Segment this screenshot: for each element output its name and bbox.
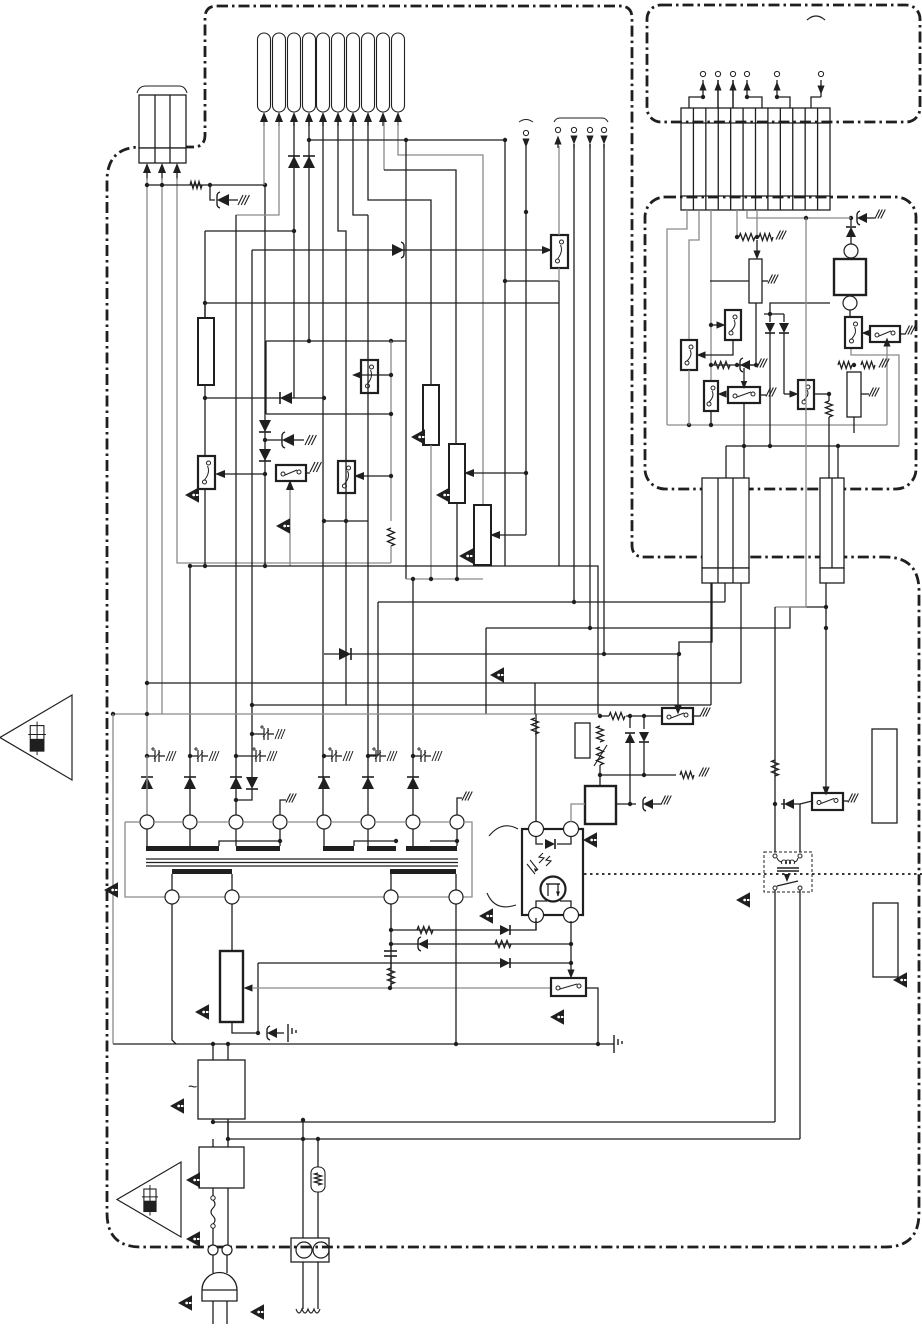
secondary bus y=579 xyxy=(406,578,483,580)
pill6 wire xyxy=(338,122,346,705)
T601 sec pin2 down xyxy=(231,904,233,951)
resistor chain x=391 xyxy=(390,341,392,521)
pill10 wire xyxy=(398,122,483,505)
wire CN601-3 long xyxy=(177,178,391,563)
secondary bus y=628 xyxy=(486,607,826,628)
into R607 xyxy=(490,531,500,539)
chassis ground xyxy=(905,326,910,335)
T601 sec pin4 down xyxy=(455,904,457,1044)
into Q615 xyxy=(567,970,574,979)
rail x=147 tail xyxy=(146,756,148,815)
pill7 wire xyxy=(353,122,368,215)
Q609 drive xyxy=(743,368,745,387)
rail x=368 xyxy=(367,215,369,815)
board pin at x=703 xyxy=(702,80,704,97)
pill2 wire xyxy=(236,122,279,215)
resistor R606 (tall rect) xyxy=(449,444,465,503)
secondary bus y=654 xyxy=(324,653,679,655)
ground bus y=1044 xyxy=(113,1043,610,1045)
Q615 right xyxy=(586,988,598,1044)
Q610 base xyxy=(784,393,794,395)
junction xyxy=(316,1137,320,1141)
rectifier diode on rail x=147 xyxy=(141,777,153,789)
pair riser xyxy=(770,303,830,314)
pin arrow CN601-3 xyxy=(173,163,181,173)
warning triangle xyxy=(583,832,597,847)
junction xyxy=(569,942,573,946)
x=205 upper xyxy=(204,231,206,318)
flow arrow xyxy=(542,246,552,254)
N wire to plug xyxy=(227,1188,229,1245)
regulator resistor R604 (tall rect) xyxy=(198,318,214,385)
junction xyxy=(389,373,393,377)
bus x=505 down xyxy=(504,140,506,566)
branch Q602 xyxy=(363,475,391,477)
warning triangle on frame xyxy=(104,882,118,897)
IC602 right xyxy=(616,803,636,805)
junction xyxy=(454,1042,458,1046)
rail x=252 xyxy=(251,250,253,777)
board pin at x=718 xyxy=(717,80,719,108)
junction xyxy=(836,444,840,448)
PC601 inner pins xyxy=(536,901,547,908)
resistor R615 xyxy=(826,401,833,417)
junction xyxy=(145,712,149,716)
warning triangle xyxy=(185,487,199,502)
cap+gnd on rail x=252 (upper) xyxy=(260,726,264,728)
into Q607 xyxy=(697,351,706,358)
R616 bottom xyxy=(853,417,855,433)
junction xyxy=(263,438,267,442)
T601 sec pin3 down xyxy=(390,904,392,988)
junction xyxy=(628,802,632,806)
AC plug xyxy=(212,1255,214,1273)
diode D606 xyxy=(303,156,315,168)
connector CN601 (3-pin, top-left) xyxy=(139,95,186,148)
earth ground xyxy=(287,1024,289,1042)
diode D608 xyxy=(280,392,292,404)
into Q611 xyxy=(862,329,871,336)
junction xyxy=(301,1118,305,1122)
bus x=266 xyxy=(265,341,267,414)
pin arrow CN601-2 xyxy=(158,163,166,173)
bus y=565 (long) xyxy=(190,566,598,714)
R604 bottom xyxy=(204,385,206,398)
warning triangle xyxy=(186,1172,200,1187)
pin group P2-P5 xyxy=(554,118,608,122)
junction xyxy=(642,773,646,777)
chassis ground xyxy=(757,359,762,368)
diode pair on y=716/775 xyxy=(629,716,631,728)
transformer T601 xyxy=(140,815,154,829)
pill1 chain tail xyxy=(264,474,266,566)
junction xyxy=(572,600,576,604)
drop x=535 xyxy=(534,683,536,714)
bus y=521 xyxy=(324,520,368,522)
middle-right sub board outline (dash-dot) xyxy=(645,197,916,489)
chassis ground xyxy=(286,794,291,803)
diode D605 xyxy=(288,156,300,168)
Q607 base wire xyxy=(701,340,733,355)
rectifier diode on rail x=190 xyxy=(184,777,196,789)
bus y=775 xyxy=(600,774,676,776)
junction xyxy=(301,1137,305,1141)
T601 winding bars bottom xyxy=(172,869,232,874)
warning triangle xyxy=(170,1098,184,1113)
R623 bottom xyxy=(232,1022,258,1033)
junction xyxy=(256,1031,260,1035)
pill8 wire xyxy=(368,122,431,385)
chassis ground xyxy=(879,359,884,368)
regulator IC602 (thick box) xyxy=(585,786,616,824)
RL601 output wires xyxy=(774,890,776,1122)
Q605 drive xyxy=(289,485,291,566)
arc mark top-right board xyxy=(807,16,825,20)
junction xyxy=(524,210,528,214)
warning triangle xyxy=(195,1004,209,1019)
grey bus y=425 xyxy=(667,424,887,426)
top-right signal board outline (dash-dot) xyxy=(647,5,920,122)
junction xyxy=(455,577,459,581)
block col feed3 xyxy=(710,583,712,705)
pin arrow CN601-1 xyxy=(143,163,151,173)
IC602 left to opto xyxy=(571,804,585,822)
into R606 xyxy=(464,469,474,477)
pin 590 wire xyxy=(589,144,591,628)
pill9 wire xyxy=(383,122,385,170)
junction xyxy=(687,423,691,427)
junction xyxy=(735,235,739,239)
filter block LF602 xyxy=(199,1147,244,1188)
bus x=486 down xyxy=(485,628,487,714)
grey stub col7 xyxy=(756,210,758,237)
chassis ground xyxy=(310,462,315,472)
wire CN601-1 rail xyxy=(146,178,148,815)
x=630 tail xyxy=(629,775,631,804)
relay feed vertical xyxy=(774,607,776,852)
transistor Q615 xyxy=(551,978,586,996)
resistor R609 (rect) xyxy=(575,723,590,758)
block col feed xyxy=(724,583,726,602)
R613 left wire xyxy=(710,280,749,282)
zener D620 xyxy=(418,939,428,949)
cap+gnd on rail x=368 xyxy=(372,748,376,750)
junction xyxy=(524,471,528,475)
junction xyxy=(389,474,393,478)
junction xyxy=(709,423,713,427)
transistor Q610 xyxy=(798,380,814,409)
junction xyxy=(411,577,415,581)
junction xyxy=(411,754,415,758)
bus B y=446 xyxy=(726,445,899,447)
junction xyxy=(503,138,507,142)
grey col3 xyxy=(710,210,712,381)
junction xyxy=(588,626,592,630)
line B left xyxy=(725,446,727,478)
junction xyxy=(852,363,856,367)
diode D621 xyxy=(500,958,510,968)
secondary bus y=705 xyxy=(252,704,711,706)
transistor Q601 xyxy=(551,235,568,268)
junction xyxy=(569,961,573,965)
into Q610 xyxy=(790,390,799,397)
junction xyxy=(160,183,164,187)
transistor Q612 xyxy=(870,326,900,342)
resistor R621 xyxy=(680,772,694,779)
junction xyxy=(735,363,739,367)
pair top bus xyxy=(764,313,784,315)
transistor Q611 xyxy=(845,317,862,348)
junction xyxy=(234,754,238,758)
junction xyxy=(322,754,326,758)
junction xyxy=(208,183,212,187)
warning triangle xyxy=(436,487,450,502)
junction xyxy=(322,519,326,523)
warning triangle xyxy=(276,518,290,533)
junction xyxy=(389,928,393,932)
junction xyxy=(250,703,254,707)
rectifier diode on rail x=236 xyxy=(230,777,242,789)
PC601 phototransistor xyxy=(541,877,566,902)
junction xyxy=(742,444,746,448)
bus y=140 xyxy=(309,139,506,141)
T601 ground stub pin8 xyxy=(457,798,462,815)
junction xyxy=(598,773,602,777)
R606 bottom xyxy=(456,503,458,579)
zener D603 xyxy=(282,434,294,446)
grey col2 xyxy=(689,210,699,340)
chassis ground xyxy=(305,435,310,445)
resistor R613 (rect) xyxy=(749,259,762,303)
warning triangle xyxy=(186,1231,200,1246)
degauss feed left xyxy=(302,1120,304,1238)
D617 to Q613 xyxy=(794,804,800,852)
mains bus N xyxy=(228,1138,800,1140)
secondary bus y=602 xyxy=(378,601,725,603)
chassis ground xyxy=(766,388,771,397)
junction xyxy=(203,301,207,305)
capacitor C601 xyxy=(384,950,397,952)
into Q603 xyxy=(352,371,362,379)
junction xyxy=(773,802,777,806)
posistor top xyxy=(317,1139,319,1167)
Q607 bottom xyxy=(688,370,690,425)
chassis ground xyxy=(875,210,880,219)
block2 col2 feed xyxy=(837,446,839,478)
pill1 wire xyxy=(263,122,265,185)
R604 top xyxy=(204,303,206,318)
resistor R612 xyxy=(759,234,773,241)
resistor R623 (big rect) xyxy=(220,951,243,1022)
LF601 top pins xyxy=(212,1044,214,1060)
zener D616 xyxy=(643,799,653,809)
x=258 drop xyxy=(257,963,259,1033)
resistor R605 (tall rect) xyxy=(423,385,439,445)
feedback grey xyxy=(252,987,551,989)
cap+gnd on rail x=413 xyxy=(417,748,421,750)
resistor R618 xyxy=(861,362,875,369)
chassis ground xyxy=(661,796,666,805)
grey col1 xyxy=(667,210,687,425)
relay RL601 (dashed box) xyxy=(764,852,812,892)
junction xyxy=(755,235,759,239)
chassis ground xyxy=(848,794,853,803)
cap+gnd on rail x=236 xyxy=(252,748,256,750)
junction xyxy=(824,626,828,630)
T601 ground stub pin4 xyxy=(280,800,286,815)
block col feed2 xyxy=(740,583,742,683)
chassis ground xyxy=(462,792,467,801)
chassis ground xyxy=(699,768,704,777)
R605 bottom xyxy=(430,445,432,579)
rail x=413 xyxy=(412,579,414,815)
transformer primary jacket (grey) xyxy=(125,821,140,823)
board pin at x=733 xyxy=(732,80,734,108)
junction xyxy=(677,652,681,656)
junction xyxy=(596,1042,600,1046)
resistor R619 xyxy=(609,713,625,720)
T601 core xyxy=(146,858,458,860)
Q601 collector xyxy=(558,146,560,235)
bus y=281 xyxy=(505,280,559,282)
into Q614 xyxy=(674,706,681,715)
junction xyxy=(307,138,311,142)
R606 base wire xyxy=(473,472,526,474)
transistor Q602 xyxy=(338,461,355,493)
bus y=231 xyxy=(205,230,294,232)
shield arc left upper xyxy=(489,826,518,836)
connector CN603 (3-cell block) xyxy=(702,478,749,568)
junction xyxy=(849,216,853,220)
rectifier diode on rail x=252 xyxy=(246,777,258,789)
Q609 bottom xyxy=(743,403,745,446)
pin 574 wire xyxy=(573,144,575,602)
Q601 emitter xyxy=(558,268,560,281)
resistor R624 xyxy=(417,927,433,934)
transistor Q607 xyxy=(681,340,697,370)
pill9 jog xyxy=(384,170,456,444)
resistor R601 xyxy=(190,182,202,189)
opto pin4 down xyxy=(570,921,572,972)
junction xyxy=(628,714,632,718)
warning triangle xyxy=(550,1009,564,1024)
transistor Q603 (upper) xyxy=(361,360,378,393)
into Q606 xyxy=(717,321,726,328)
junction xyxy=(226,1042,230,1046)
junction xyxy=(389,339,393,343)
pin 604 wire xyxy=(603,144,605,654)
resistor R603 xyxy=(388,528,395,546)
zener D613 xyxy=(740,360,750,370)
pin P1 x=526 xyxy=(523,130,528,135)
junction xyxy=(709,363,713,367)
grey stub col5 xyxy=(736,210,738,237)
bus y=303 xyxy=(205,302,559,304)
junction xyxy=(263,564,267,568)
cap+gnd on rail x=147 xyxy=(151,748,155,750)
diode D619 xyxy=(500,925,510,935)
junction xyxy=(598,714,602,718)
diode D602 xyxy=(259,420,271,432)
bus y=963 xyxy=(258,962,571,964)
posistor bottom xyxy=(317,1192,319,1238)
R619 link xyxy=(626,715,662,717)
interlock pins on border xyxy=(208,1245,218,1255)
warning triangle xyxy=(490,667,504,682)
sensor top bus xyxy=(747,210,851,218)
junction xyxy=(322,396,326,400)
junction xyxy=(211,1120,215,1124)
R613 bottom tail xyxy=(755,303,757,365)
board pin at x=747 xyxy=(746,80,748,97)
resistor R620 xyxy=(597,726,604,742)
transistor Q604 xyxy=(198,456,215,489)
caution triangle (fuse, lower) xyxy=(117,1162,181,1237)
junction xyxy=(145,681,149,685)
R607 base wire xyxy=(499,534,526,536)
Q604 base wire xyxy=(224,473,265,475)
connector CN604 block xyxy=(820,478,844,568)
chassis ground xyxy=(776,231,781,240)
pill4 wire xyxy=(308,122,310,341)
wire CN601-2 xyxy=(161,178,163,714)
T601 winding taps xyxy=(219,841,280,846)
sensor U601 (thick box) xyxy=(834,259,866,295)
junction xyxy=(111,712,115,716)
warning triangle xyxy=(411,429,425,444)
zener row xyxy=(711,364,756,366)
bus into R619 xyxy=(598,715,609,717)
diode D615 xyxy=(846,227,856,237)
zener D618 xyxy=(267,1028,277,1038)
junction xyxy=(827,392,831,396)
into Q602 xyxy=(354,472,364,480)
diode D609 xyxy=(339,648,351,660)
posistor TH601 xyxy=(311,1167,325,1192)
IC601 top pin jogs xyxy=(689,97,703,108)
junction xyxy=(211,1042,215,1046)
resistor R616 (rect) xyxy=(847,372,861,417)
degauss connector CN605 xyxy=(291,1238,329,1262)
line filter block LF601 xyxy=(198,1060,245,1119)
relay feed upper (grey) xyxy=(775,218,806,607)
bus y=944 xyxy=(391,943,571,945)
into Q608 xyxy=(718,390,727,397)
secondary bus y=683 xyxy=(147,682,741,684)
frame drop x=113 lower xyxy=(112,897,114,1044)
junction xyxy=(429,577,433,581)
zener branch xyxy=(210,185,215,200)
T601 sec pin1 down xyxy=(172,904,176,1044)
D617 link xyxy=(781,803,784,805)
junction xyxy=(388,986,392,990)
junction xyxy=(344,519,348,523)
chassis ground xyxy=(700,708,705,717)
junction xyxy=(389,942,393,946)
branch T4 xyxy=(361,374,391,376)
junction xyxy=(602,652,606,656)
Q611 out path xyxy=(851,348,899,446)
transistor Q614 xyxy=(662,708,693,724)
warning triangle xyxy=(178,1295,192,1310)
cap+gnd on rail x=324 xyxy=(328,748,332,750)
tail x=391 xyxy=(390,546,392,563)
resistor R608 xyxy=(532,718,539,734)
junction xyxy=(292,229,296,233)
opto feed xyxy=(535,714,537,822)
Q610 right link xyxy=(814,393,829,395)
junction xyxy=(768,312,772,316)
